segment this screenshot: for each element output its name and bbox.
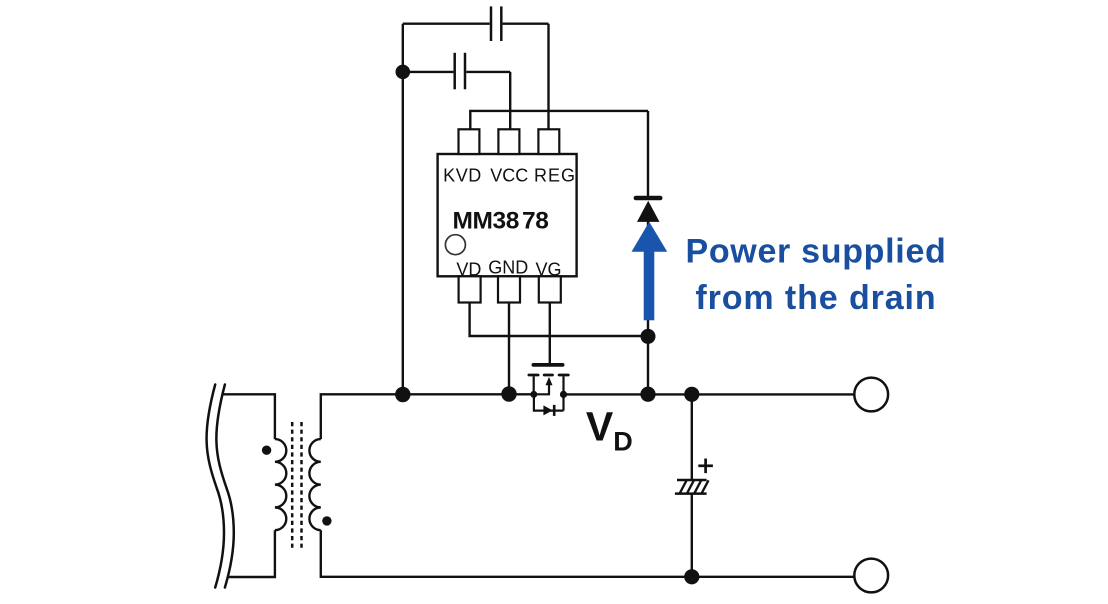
transformer T1 core (dashed) [292, 422, 301, 548]
node: Q1 source junction [530, 391, 537, 398]
wire: AC-side break squiggle (inner) [216, 385, 233, 588]
wire: top-left vertical from C1/C2 node down to main rail [402, 24, 404, 395]
node: primary polarity dot [262, 446, 271, 455]
wire: main rail right (Q1 drain to output terminal) [564, 393, 855, 395]
wire: second horizontal through C2 (right segment) [466, 71, 510, 73]
terminal: output - [854, 559, 888, 593]
diode D1 (triangle) [637, 201, 660, 222]
transistor Q1 body-diode cathode bar [553, 405, 556, 416]
node: secondary polarity dot [322, 516, 331, 525]
wire: diode branch vertical (below diode to rail) [647, 221, 649, 394]
svg-text:MM3878: MM3878 [453, 208, 549, 235]
wire: output capacitor branch (bottom half) [691, 494, 693, 577]
svg-text:KVD: KVD [443, 165, 482, 185]
terminal: output + [854, 378, 888, 412]
label: capacitor C3 plus sign [698, 459, 713, 474]
wire: VCC pin vertical riser [509, 72, 511, 130]
node: junction of C1/C2 at top-left [396, 65, 411, 80]
wire: diode branch vertical (above diode) [647, 111, 649, 198]
transformer T1 secondary winding [309, 439, 320, 530]
transistor Q1 drain lead [562, 376, 564, 410]
pin KVD (top, pin box) [459, 129, 480, 154]
marker: pin-1 index circle [445, 235, 465, 255]
svg-text:VCC: VCC [490, 165, 528, 185]
pin VG (bottom, pin box) [539, 276, 561, 302]
diode D1 (cathode bar) [636, 196, 660, 201]
transistor Q1 body-diode triangle [543, 405, 552, 415]
arrow: power supplied from the drain (blue) [632, 222, 668, 320]
node: junction capacitor branch / bottom rail [684, 569, 699, 584]
capacitor C2 plates [455, 53, 465, 90]
wire: REG pin vertical riser [547, 24, 549, 130]
wire: top horizontal through C1 (right segment) [503, 23, 549, 25]
transistor Q1 body lead with arrow [534, 385, 549, 395]
svg-text:VD: VD [456, 259, 481, 279]
wire: transformer primary top [223, 394, 275, 439]
wire: output capacitor branch (top half) [691, 394, 693, 479]
transistor Q1 gate bar [533, 363, 562, 367]
svg-text:REG: REG [534, 165, 576, 185]
wire: VG pin down to MOSFET gate [549, 303, 551, 364]
pin GND (bottom, pin box) [498, 276, 520, 302]
svg-text:Power supplied: Power supplied [685, 233, 946, 271]
wire: GND pin down to main rail [508, 303, 510, 395]
pin VD (bottom, pin box) [459, 276, 481, 302]
wire: KVD pin riser and horizontal to diode branch [470, 111, 648, 131]
wire: top horizontal through C1 (left segment) [403, 23, 490, 25]
transformer T1 primary winding [275, 439, 286, 530]
node: junction diode branch / main rail [640, 387, 655, 402]
capacitor C3 (electrolytic) bottom plate [675, 492, 707, 495]
capacitor C1 plates [491, 6, 501, 41]
IC U1 MM3878 body [438, 154, 577, 276]
svg-text:from the drain: from the drain [695, 279, 936, 317]
wire: second horizontal through C2 (left segment) [403, 71, 454, 73]
pin VCC (top, pin box) [498, 129, 519, 154]
wire: AC-side break squiggle (outer) [207, 385, 224, 588]
node: junction left riser / main rail [395, 387, 410, 402]
transistor Q1 body arrow head [546, 377, 553, 385]
node: junction capacitor branch / main rail [684, 387, 699, 402]
annotation: Power supplied from the drain [685, 233, 946, 317]
node: junction GND wire / main rail [501, 386, 516, 401]
wire: main rail left (secondary top to Q1 source) [321, 394, 534, 439]
transistor Q1 body-diode path [534, 395, 564, 411]
node: Q1 drain junction [560, 391, 567, 398]
svg-text:V: V [586, 404, 614, 450]
node: junction VD wire / diode branch [641, 329, 656, 344]
capacitor C3 (electrolytic) top plate [677, 479, 707, 482]
svg-text:D: D [613, 427, 633, 457]
pin REG (top, pin box) [538, 129, 559, 154]
wire: secondary bottom to bottom rail [321, 530, 854, 577]
transistor Q1 channel segments [529, 374, 568, 377]
wire: VD pin down and across to diode branch [470, 303, 648, 337]
wire: transformer primary bottom [228, 530, 275, 577]
transistor Q1 source lead [533, 376, 535, 394]
svg-text:VG: VG [535, 259, 561, 279]
capacitor C3 hatch strokes [680, 480, 709, 493]
svg-text:GND: GND [488, 257, 528, 277]
